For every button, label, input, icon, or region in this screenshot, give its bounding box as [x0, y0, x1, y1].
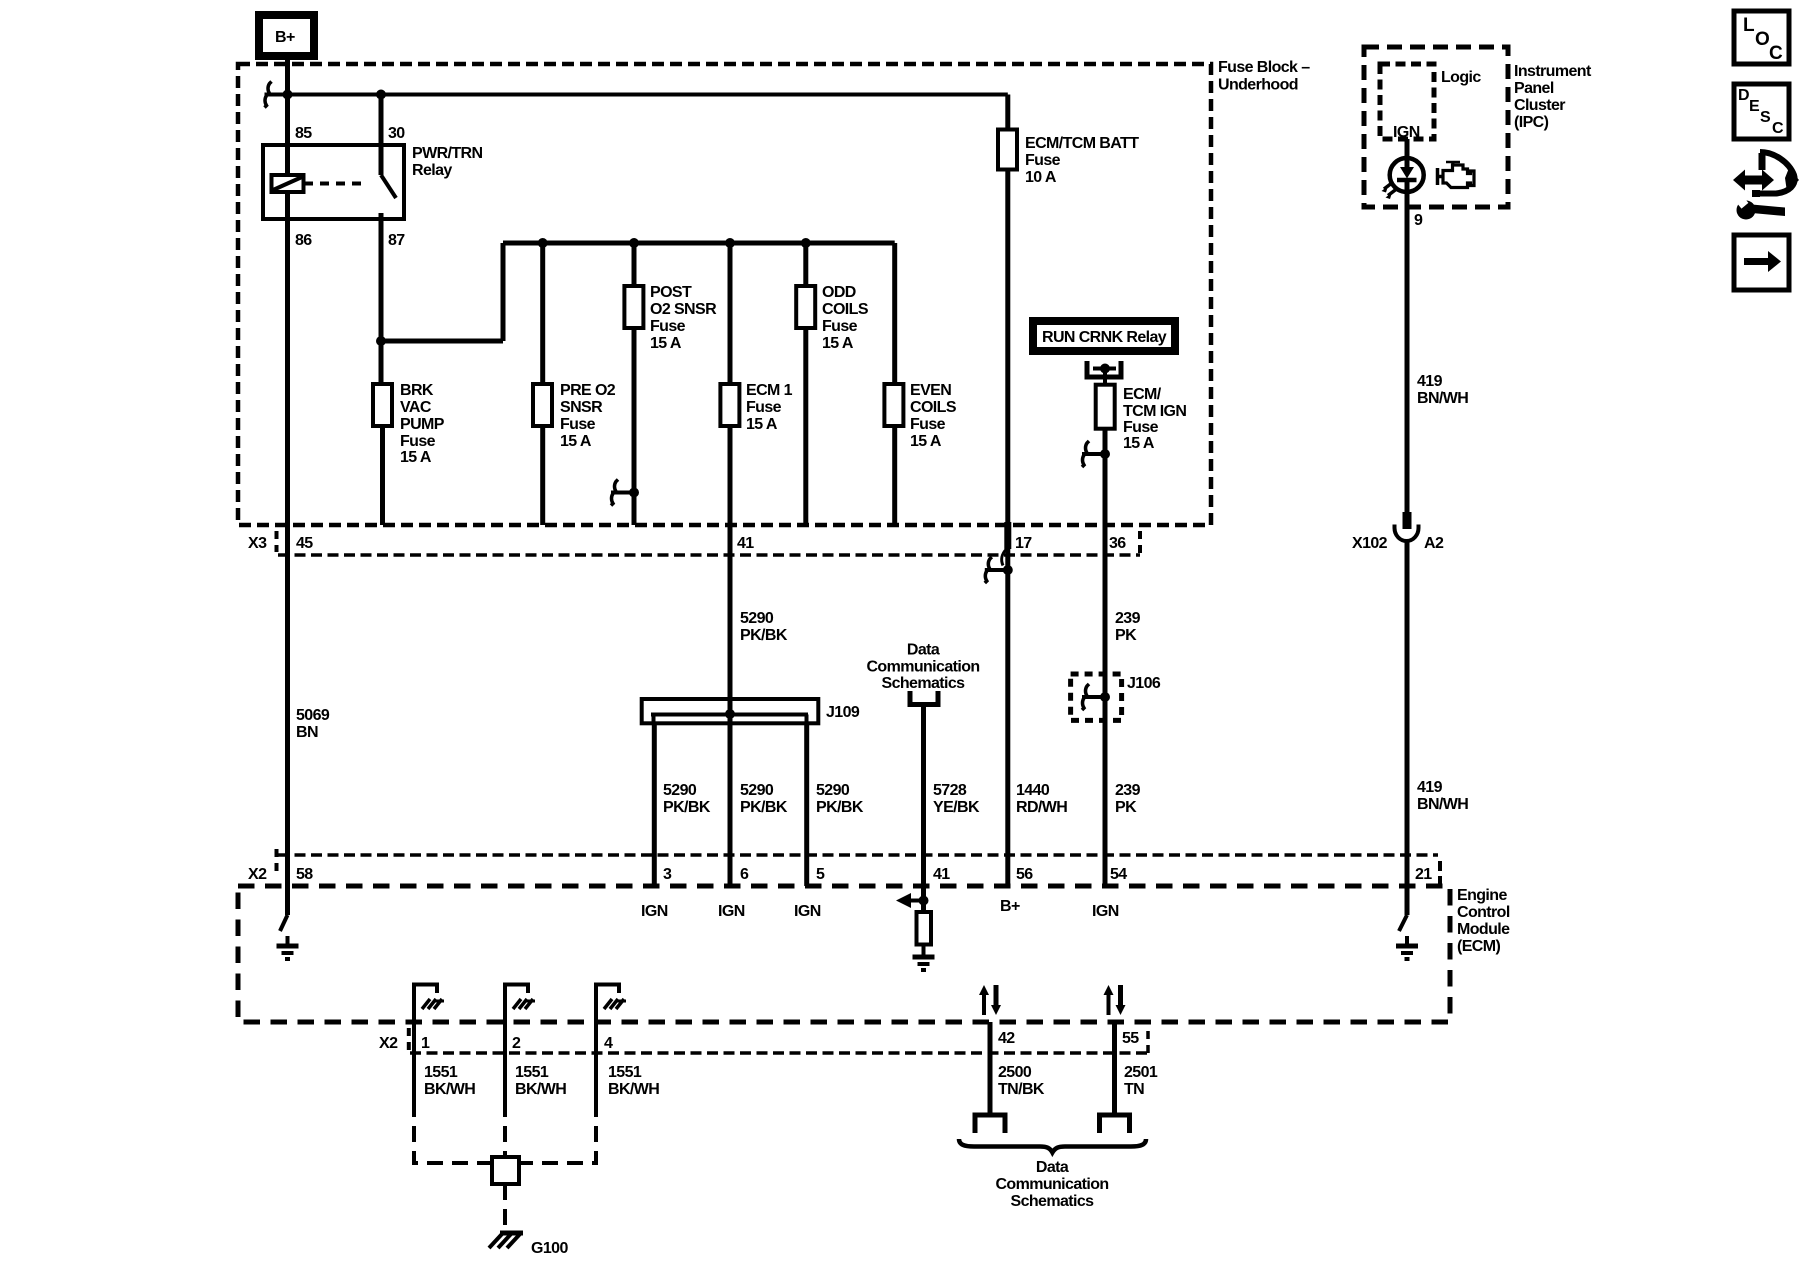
svg-text:419: 419 — [1417, 373, 1443, 390]
svg-text:X2: X2 — [379, 1035, 398, 1052]
svg-text:BK/WH: BK/WH — [424, 1081, 475, 1098]
svg-text:COILS: COILS — [910, 399, 957, 416]
svg-text:BRK: BRK — [400, 382, 434, 399]
svg-text:36: 36 — [1109, 535, 1126, 552]
svg-text:41: 41 — [933, 866, 950, 883]
svg-text:TN: TN — [1124, 1081, 1144, 1098]
svg-text:Fuse: Fuse — [910, 416, 946, 433]
svg-text:BK/WH: BK/WH — [515, 1081, 566, 1098]
svg-text:PRE O2: PRE O2 — [560, 382, 616, 399]
svg-text:B+: B+ — [275, 29, 295, 46]
svg-text:15 A: 15 A — [910, 433, 942, 450]
svg-text:56: 56 — [1016, 866, 1033, 883]
svg-text:3: 3 — [663, 866, 672, 883]
svg-text:Communication: Communication — [995, 1176, 1108, 1193]
svg-text:POST: POST — [650, 284, 692, 301]
svg-text:PK: PK — [1115, 627, 1137, 644]
svg-text:COILS: COILS — [822, 301, 869, 318]
svg-text:J106: J106 — [1127, 675, 1161, 692]
svg-text:85: 85 — [295, 125, 312, 142]
svg-text:1551: 1551 — [424, 1064, 458, 1081]
svg-text:Fuse: Fuse — [400, 433, 436, 450]
svg-text:C: C — [1772, 120, 1784, 137]
svg-text:58: 58 — [296, 866, 313, 883]
svg-text:C: C — [1769, 43, 1783, 64]
svg-text:ECM/: ECM/ — [1123, 386, 1162, 403]
svg-text:55: 55 — [1122, 1030, 1139, 1047]
svg-text:15 A: 15 A — [650, 335, 682, 352]
svg-text:Fuse: Fuse — [746, 399, 782, 416]
svg-text:RD/WH: RD/WH — [1016, 799, 1067, 816]
svg-text:IGN: IGN — [1393, 124, 1420, 141]
svg-text:PK/BK: PK/BK — [740, 799, 788, 816]
svg-text:Data: Data — [907, 642, 940, 659]
svg-text:BN/WH: BN/WH — [1417, 796, 1468, 813]
svg-text:Module: Module — [1457, 921, 1510, 938]
svg-text:5290: 5290 — [663, 782, 697, 799]
svg-text:15 A: 15 A — [746, 416, 778, 433]
svg-text:5: 5 — [816, 866, 825, 883]
svg-text:Fuse: Fuse — [560, 416, 596, 433]
svg-text:TCM IGN: TCM IGN — [1123, 403, 1186, 420]
svg-text:54: 54 — [1110, 866, 1127, 883]
svg-text:10 A: 10 A — [1025, 169, 1057, 186]
svg-text:86: 86 — [295, 232, 312, 249]
svg-text:(IPC): (IPC) — [1514, 114, 1549, 131]
svg-text:Schematics: Schematics — [882, 675, 966, 692]
svg-text:Relay: Relay — [412, 162, 452, 179]
svg-text:Data: Data — [1036, 1159, 1069, 1176]
svg-text:5728: 5728 — [933, 782, 967, 799]
svg-text:Fuse: Fuse — [650, 318, 686, 335]
svg-text:1440: 1440 — [1016, 782, 1050, 799]
svg-text:PK/BK: PK/BK — [816, 799, 864, 816]
svg-text:(ECM): (ECM) — [1457, 938, 1500, 955]
svg-text:Underhood: Underhood — [1218, 77, 1298, 94]
svg-text:Instrument: Instrument — [1514, 63, 1592, 80]
svg-text:Panel: Panel — [1514, 80, 1554, 97]
svg-text:D: D — [1738, 87, 1750, 104]
svg-text:2500: 2500 — [998, 1064, 1032, 1081]
svg-text:PK/BK: PK/BK — [740, 627, 788, 644]
svg-text:5290: 5290 — [740, 610, 774, 627]
svg-text:ECM/TCM BATT: ECM/TCM BATT — [1025, 135, 1139, 152]
svg-text:BN: BN — [296, 724, 318, 741]
svg-text:O: O — [1755, 29, 1770, 50]
svg-text:4: 4 — [604, 1035, 613, 1052]
svg-text:239: 239 — [1115, 610, 1141, 627]
svg-text:419: 419 — [1417, 779, 1443, 796]
svg-text:S: S — [1760, 109, 1771, 126]
svg-text:9: 9 — [1414, 212, 1423, 229]
svg-text:O2 SNSR: O2 SNSR — [650, 301, 717, 318]
svg-text:PK/BK: PK/BK — [663, 799, 711, 816]
svg-text:ODD: ODD — [822, 284, 856, 301]
svg-text:Engine: Engine — [1457, 887, 1507, 904]
svg-text:239: 239 — [1115, 782, 1141, 799]
svg-text:SNSR: SNSR — [560, 399, 603, 416]
svg-text:2: 2 — [512, 1035, 521, 1052]
svg-text:15 A: 15 A — [1123, 435, 1155, 452]
svg-text:30: 30 — [388, 125, 405, 142]
svg-text:15 A: 15 A — [400, 449, 432, 466]
svg-text:45: 45 — [296, 535, 313, 552]
svg-text:Fuse: Fuse — [822, 318, 858, 335]
svg-text:Cluster: Cluster — [1514, 97, 1565, 114]
svg-text:5069: 5069 — [296, 707, 330, 724]
svg-text:IGN: IGN — [718, 903, 745, 920]
svg-text:42: 42 — [998, 1030, 1015, 1047]
svg-text:IGN: IGN — [794, 903, 821, 920]
svg-text:Schematics: Schematics — [1011, 1193, 1095, 1210]
svg-text:X102: X102 — [1352, 535, 1388, 552]
svg-text:VAC: VAC — [400, 399, 432, 416]
svg-text:5290: 5290 — [740, 782, 774, 799]
svg-text:6: 6 — [740, 866, 749, 883]
svg-text:Fuse: Fuse — [1123, 419, 1159, 436]
svg-text:L: L — [1743, 15, 1755, 36]
svg-text:1: 1 — [421, 1035, 430, 1052]
svg-text:1551: 1551 — [515, 1064, 549, 1081]
svg-text:5290: 5290 — [816, 782, 850, 799]
svg-text:X3: X3 — [248, 535, 267, 552]
svg-text:B+: B+ — [1000, 898, 1020, 915]
svg-text:BN/WH: BN/WH — [1417, 390, 1468, 407]
svg-text:PWR/TRN: PWR/TRN — [412, 145, 483, 162]
svg-text:Communication: Communication — [866, 659, 979, 676]
svg-text:X2: X2 — [248, 866, 267, 883]
svg-text:BK/WH: BK/WH — [608, 1081, 659, 1098]
svg-text:Logic: Logic — [1441, 69, 1481, 86]
svg-text:TN/BK: TN/BK — [998, 1081, 1045, 1098]
svg-text:1551: 1551 — [608, 1064, 642, 1081]
svg-text:RUN CRNK Relay: RUN CRNK Relay — [1042, 329, 1167, 346]
svg-text:EVEN: EVEN — [910, 382, 951, 399]
svg-text:21: 21 — [1415, 866, 1432, 883]
svg-text:A2: A2 — [1424, 535, 1444, 552]
svg-text:IGN: IGN — [1092, 903, 1119, 920]
svg-text:Fuse: Fuse — [1025, 152, 1061, 169]
svg-text:Fuse Block –: Fuse Block – — [1218, 59, 1310, 76]
svg-text:E: E — [1749, 98, 1760, 115]
svg-text:YE/BK: YE/BK — [933, 799, 980, 816]
svg-text:2501: 2501 — [1124, 1064, 1158, 1081]
svg-text:15 A: 15 A — [560, 433, 592, 450]
svg-text:PK: PK — [1115, 799, 1137, 816]
svg-text:G100: G100 — [531, 1240, 568, 1257]
svg-text:17: 17 — [1015, 535, 1032, 552]
svg-text:15 A: 15 A — [822, 335, 854, 352]
svg-text:ECM 1: ECM 1 — [746, 382, 793, 399]
svg-text:87: 87 — [388, 232, 405, 249]
svg-text:41: 41 — [737, 535, 754, 552]
svg-text:Control: Control — [1457, 904, 1510, 921]
svg-text:IGN: IGN — [641, 903, 668, 920]
svg-text:PUMP: PUMP — [400, 416, 445, 433]
svg-text:J109: J109 — [826, 704, 860, 721]
